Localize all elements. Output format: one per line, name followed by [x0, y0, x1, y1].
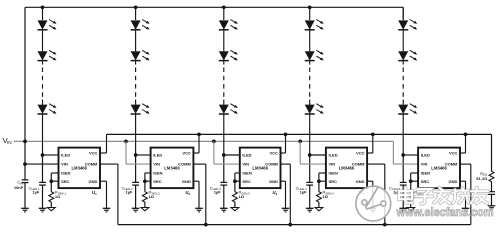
op-amp U3: LM3466 LED driver IC [240, 148, 281, 189]
op-amp U5: LM3466 LED driver IC [418, 148, 460, 189]
LED D2b [131, 51, 141, 60]
wire: VCC pin wire U1 [100, 152, 107, 154]
LED D3b [219, 51, 229, 60]
wire: COMM pin wire U1 [100, 163, 118, 165]
node: ILED junction 3 [222, 153, 226, 157]
wire: GND drop U2 [198, 181, 200, 208]
resistor RSEN,4 1 Ohm [317, 192, 322, 202]
wire: RSEN,1 to ground [50, 202, 52, 208]
wire: string 3 cathode down to ILED node [223, 114, 225, 155]
wire: string 3 between LED 1-2 [223, 30, 225, 51]
ground: under CLED,5 [399, 207, 407, 209]
svg-text:www.elecfans.com: www.elecfans.com [396, 205, 494, 219]
wire: VIN pin wire U3 [214, 163, 240, 165]
node: ILED junction 4 [308, 153, 312, 157]
svg-text:COMM: COMM [445, 162, 458, 167]
wire: LED string 1 column (top) [42, 7, 44, 20]
node: VIN bus tap 4 [298, 140, 302, 144]
svg-text:ILED: ILED [153, 153, 162, 158]
wire: CLED,2 lead from ILED node [135, 155, 137, 182]
wire: GND drop U3 [285, 181, 287, 208]
wire: string 1 dashed continuation [42, 61, 44, 65]
node: top rail junction string 1 [41, 5, 45, 9]
wire: GND drop U1 [106, 181, 108, 208]
wire: LED string 4 column (top) [309, 7, 311, 20]
wire: CLED,4 lead from ILED node [309, 155, 311, 182]
wire: CLED,3 to ground [223, 185, 225, 208]
wire: ISEN pin wire U2 [145, 172, 151, 174]
wire: VCC pin wire U2 [193, 152, 199, 154]
resistor REQ 51.1 Ohm [489, 171, 494, 181]
wire: VCC pin wire U3 [281, 152, 286, 154]
svg-text:1Ω: 1Ω [149, 194, 155, 199]
op-amp U4: LM3466 LED driver IC [326, 148, 367, 189]
wire: CLED,5 to ground [402, 185, 404, 208]
capacitor CEQ [488, 191, 495, 193]
capacitor CLED,2 1uF [132, 181, 139, 183]
svg-text:SRC: SRC [61, 179, 70, 184]
watermark: Chinese characters (stylized hollow strokes) [399, 187, 412, 202]
svg-text:ILED: ILED [329, 153, 338, 158]
svg-text:1µF: 1µF [214, 190, 222, 195]
capacitor CLED,3 1uF [220, 181, 227, 183]
wire: VIN tap drop 4 [299, 141, 301, 164]
svg-text:ISEN: ISEN [421, 171, 430, 176]
wire: string 1 cathode down to ILED node [42, 114, 44, 155]
LED D2a [131, 20, 141, 29]
svg-text:VCC: VCC [269, 151, 278, 156]
ground: under U2 GND [195, 207, 203, 209]
wire: RSEN,5 to ground [410, 202, 412, 208]
wire: SRC node to RSEN,4 [318, 181, 320, 192]
ground: under U1 GND [103, 207, 111, 209]
svg-text:ILED: ILED [61, 153, 70, 158]
ground: under REQ/CEQ network [488, 205, 496, 207]
svg-text:VIN: VIN [421, 162, 428, 167]
wire: ILED pin wire U1 [43, 154, 59, 156]
wire: ILED pin wire U5 [403, 154, 418, 156]
op-amp U2: LM3466 LED driver IC [151, 148, 194, 189]
ground: arrow ground under RSEN,4 [315, 208, 323, 211]
op-amp U1: LM3466 LED driver IC [59, 148, 101, 189]
svg-text:GND: GND [356, 179, 365, 184]
wire: COMM drop U1 [117, 164, 119, 225]
wire: VIN bus [14, 140, 394, 142]
svg-text:ISEN: ISEN [329, 171, 338, 176]
LED D5b [398, 51, 408, 60]
wire: ILED pin wire U2 [136, 154, 151, 156]
ground: under U5 GND [462, 207, 470, 209]
wire: string 4 cathode down to ILED node [309, 114, 311, 155]
wire: ISEN pin wire U1 [51, 172, 58, 174]
wire: COMM drop U3 [289, 164, 291, 225]
wire: LED string 2 column (top) [135, 7, 137, 20]
wire: SRC pin wire U2 [145, 180, 151, 182]
svg-text:U1: U1 [92, 190, 97, 196]
watermark: elecfans logo circle [356, 186, 391, 221]
resistor RSEN,1 1 Ohm [49, 192, 54, 202]
resistor RSEN,2 1 Ohm [143, 192, 148, 202]
node: SRC/ISEN junction 3 [233, 179, 237, 183]
ground: under U3 GND [282, 207, 290, 209]
svg-text:1Ω: 1Ω [323, 194, 329, 199]
svg-text:SRC: SRC [242, 179, 251, 184]
ground: under CLED,4 [306, 207, 314, 209]
wire: ISEN drop to SRC node 2 [144, 173, 146, 181]
node: SRC/ISEN junction 1 [49, 179, 53, 183]
svg-text:1Ω: 1Ω [55, 194, 61, 199]
resistor RSEN,3 1 Ohm [233, 192, 238, 202]
node: VIN bus junction at x=25 [23, 140, 27, 144]
wire: SRC node to RSEN,5 [410, 181, 412, 192]
ground: arrow ground under RSEN,5 [407, 208, 415, 211]
ground: under U4 GND [369, 207, 377, 209]
wire: VIN pin wire U5 [393, 163, 418, 165]
svg-text:COMM: COMM [178, 162, 191, 167]
wire: SRC pin wire U3 [235, 180, 240, 182]
wire: VIN tap drop 5 [392, 141, 394, 164]
LED D2c [131, 105, 141, 114]
wire: SRC node to RSEN,1 [50, 181, 52, 192]
wire: ILED pin wire U3 [224, 154, 240, 156]
wire: CLED,5 lead from ILED node [402, 155, 404, 182]
ground: arrow ground under RSEN,2 [141, 208, 149, 211]
wire: left VIN riser (x=25) from top rail to VIN bus [24, 7, 26, 141]
wire: VCC pin wire U5 [460, 152, 466, 154]
wire: CLED,1 to ground [42, 185, 44, 208]
wire: VIN top anode rail [25, 6, 403, 8]
wire: GND pin wire U1 [100, 180, 107, 182]
node: ILED junction 2 [134, 153, 138, 157]
wire: VCC riser U3 [285, 134, 287, 153]
node: VCC bus junction 2 [197, 133, 201, 137]
wire: string 5 dashed continuation [402, 61, 404, 65]
svg-text:VCC: VCC [182, 151, 191, 156]
node: top rail junction string 4 [308, 5, 312, 9]
capacitor CLED,4 1uF [306, 181, 313, 183]
svg-text:51.1Ω: 51.1Ω [476, 176, 488, 181]
wire: GND drop U5 [465, 181, 467, 208]
wire: COMM pin wire U4 [367, 163, 385, 165]
svg-text:COMM: COMM [85, 162, 98, 167]
wire: string 2 cathode down to ILED node [135, 114, 137, 155]
wire: COMM current-share bus [118, 224, 471, 226]
node: COMM bus junction 4 [383, 223, 387, 227]
svg-text:VIN: VIN [242, 162, 249, 167]
wire: ISEN drop to SRC node 1 [50, 173, 52, 181]
wire: string 4 between LED 1-2 [309, 30, 311, 51]
svg-text:GND: GND [89, 179, 98, 184]
node: VIN pin tap junction (section 1) [23, 162, 27, 166]
wire: RSEN,4 to ground [318, 202, 320, 208]
wire: VCC riser U4 [372, 134, 374, 153]
wire: string 4 dashed continuation [309, 61, 311, 65]
svg-text:1µF: 1µF [32, 190, 40, 195]
wire: ISEN pin wire U5 [411, 172, 418, 174]
node: top rail junction string 3 [222, 5, 226, 9]
wire: SRC node to RSEN,3 [234, 181, 236, 192]
wire: x=25 column from VIN bus to CIN [24, 141, 26, 180]
ground: under CLED,3 [220, 207, 228, 209]
wire: VIN tap drop 3 [213, 141, 215, 164]
wire: SRC pin wire U5 [411, 180, 418, 182]
wire: COMM pin wire U2 [193, 163, 205, 165]
wire: COMM drop U2 [205, 164, 207, 225]
LED D1a [38, 20, 48, 29]
svg-text:1µF: 1µF [300, 190, 308, 195]
wire: string 2 between LED 1-2 [135, 30, 137, 51]
svg-text:GND: GND [182, 179, 191, 184]
svg-text:1µF: 1µF [126, 190, 134, 195]
svg-text:COMM: COMM [352, 162, 365, 167]
wire: VCC riser U2 [198, 134, 200, 153]
wire: COMM drop U4 [384, 164, 386, 225]
capacitor CLED,5 1uF [400, 181, 407, 183]
LED D3c [219, 105, 229, 114]
svg-text:VCC: VCC [89, 151, 98, 156]
svg-text:GND: GND [269, 179, 278, 184]
wire: GND pin wire U5 [460, 180, 466, 182]
svg-text:U2: U2 [185, 190, 190, 196]
node: SRC/ISEN junction 2 [143, 179, 147, 183]
svg-text:SRC: SRC [329, 179, 338, 184]
LED D4a [305, 20, 315, 29]
wire: CLED,3 lead from ILED node [223, 155, 225, 182]
svg-text:U3: U3 [273, 190, 278, 196]
LED D4c [305, 105, 315, 114]
wire: CLED,2 to ground [135, 185, 137, 208]
wire: VCC pin wire U4 [367, 152, 373, 154]
node: ILED junction 5 [401, 153, 405, 157]
svg-text:SRC: SRC [421, 179, 430, 184]
node: VCC bus junction 4 [371, 133, 375, 137]
node: COMM bus junction 2 [204, 223, 208, 227]
svg-text:GND: GND [449, 179, 458, 184]
wire: VCC riser U1 [106, 134, 108, 153]
ground: under CIN [21, 207, 29, 209]
wire: GND drop U4 [372, 181, 374, 208]
wire: RSEN,2 to ground [144, 202, 146, 208]
wire: string 2 dashed continuation [135, 61, 137, 65]
node: ILED junction 1 [41, 153, 45, 157]
capacitor CLED,1 1uF [39, 181, 46, 183]
LED D1b [38, 51, 48, 60]
wire: CLED,4 to ground [309, 185, 311, 208]
node: SRC/ISEN junction 5 [409, 179, 413, 183]
wire: VCC bus drop to REQ [491, 134, 493, 171]
wire: GND pin wire U4 [367, 180, 373, 182]
node: VCC bus junction 5 [464, 133, 468, 137]
wire: SRC pin wire U4 [319, 180, 326, 182]
svg-text:ISEN: ISEN [153, 171, 162, 176]
svg-text:VIN: VIN [61, 162, 68, 167]
capacitor CIN 10nF [22, 179, 29, 181]
LED D3a [219, 20, 229, 29]
wire: VIN pin wire U1 [25, 163, 59, 165]
wire: CEQ to ground [491, 194, 493, 205]
wire: ISEN drop to SRC node 3 [234, 173, 236, 181]
wire: string 3 dashed continuation [223, 61, 225, 65]
wire: VIN pin wire U2 [126, 163, 151, 165]
ground: under CLED,2 [132, 207, 140, 209]
svg-text:SRC: SRC [153, 179, 162, 184]
svg-text:VIN: VIN [153, 162, 160, 167]
wire: CLED,1 lead from ILED node [42, 155, 44, 182]
node: SRC/ISEN junction 4 [317, 179, 321, 183]
svg-text:VCC: VCC [449, 151, 458, 156]
node: VCC bus junction 3 [284, 133, 288, 137]
wire: SRC node to RSEN,2 [144, 181, 146, 192]
node: COMM bus junction 3 [288, 223, 292, 227]
svg-text:COMM: COMM [265, 162, 278, 167]
wire: string 1 between LED 1-2 [42, 30, 44, 51]
svg-text:VCC: VCC [356, 151, 365, 156]
wire: RSEN,3 to ground [234, 202, 236, 208]
svg-text:ILED: ILED [421, 153, 430, 158]
wire: ISEN pin wire U3 [235, 172, 240, 174]
LED D1c [38, 105, 48, 114]
LED D5c [398, 105, 408, 114]
LED D5a [398, 20, 408, 29]
node: VIN bus tap 2 [124, 140, 128, 144]
wire: VCC equalization bus [107, 133, 492, 135]
svg-text:ILED: ILED [242, 153, 251, 158]
wire: VIN tap drop 2 [125, 141, 127, 164]
node: top rail junction string 2 [134, 5, 138, 9]
wire: GND pin wire U2 [193, 180, 199, 182]
wire: SRC pin wire U1 [51, 180, 58, 182]
wire: COMM drop U5 [470, 164, 472, 225]
wire: COMM pin wire U5 [460, 163, 471, 165]
svg-text:VIN: VIN [329, 162, 336, 167]
wire: CIN to ground [24, 183, 26, 209]
svg-text:10nF: 10nF [14, 185, 24, 190]
node: VIN bus tap 3 [212, 140, 216, 144]
wire: ISEN drop to SRC node 5 [410, 173, 412, 181]
ground: arrow ground under RSEN,3 [231, 208, 239, 211]
wire: ILED pin wire U4 [310, 154, 326, 156]
wire: COMM pin wire U3 [281, 163, 291, 165]
ground: arrow ground under RSEN,1 [47, 208, 55, 211]
svg-text:1Ω: 1Ω [239, 194, 245, 199]
wire: string 5 between LED 1-2 [402, 30, 404, 51]
svg-text:ISEN: ISEN [242, 171, 251, 176]
ground: under CLED,1 [39, 207, 47, 209]
wire: string 5 cathode down to ILED node [402, 114, 404, 155]
wire: ISEN pin wire U4 [319, 172, 326, 174]
wire: REQ to CEQ [491, 182, 493, 192]
wire: VIN pin wire U4 [300, 163, 326, 165]
wire: LED string 3 column (top) [223, 7, 225, 20]
wire: ISEN drop to SRC node 4 [318, 173, 320, 181]
wire: VCC riser U5 [465, 134, 467, 153]
wire: GND pin wire U3 [281, 180, 286, 182]
LED D4b [305, 51, 315, 60]
svg-text:ISEN: ISEN [61, 171, 70, 176]
resistor RSEN,5 1 Ohm [408, 192, 413, 202]
wire: LED string 5 column (top) [402, 7, 404, 20]
wire: string 5 corner drop from rail [402, 7, 404, 20]
